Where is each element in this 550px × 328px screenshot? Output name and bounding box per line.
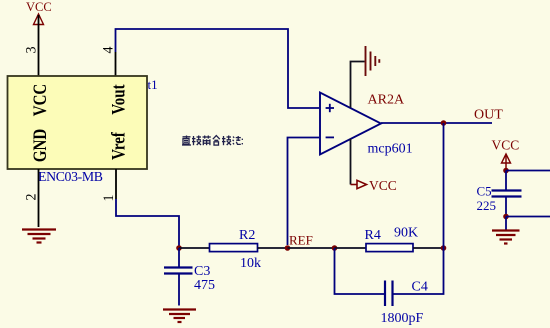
svg-text:VCC: VCC <box>29 84 50 116</box>
svg-text:4: 4 <box>100 47 116 54</box>
wire node D to right edge <box>506 170 550 172</box>
svg-text:10k: 10k <box>240 256 261 271</box>
svg-text:OUT: OUT <box>474 108 503 123</box>
resistor R4 <box>366 244 413 252</box>
wire node A to R2 <box>179 247 210 249</box>
合 <box>213 136 220 140</box>
wire node A down to C3 <box>178 248 180 267</box>
junction node A (C3/R2) <box>176 245 182 251</box>
svg-text:GND: GND <box>29 129 50 162</box>
op-amp - symbol <box>326 136 334 138</box>
svg-text:90K: 90K <box>394 226 418 241</box>
svg-text:C4: C4 <box>412 280 428 295</box>
power flag VCC (below op-amp) <box>351 178 397 193</box>
wire R4 to node C <box>413 247 444 249</box>
ground (under pin 2) <box>22 230 56 243</box>
wire node E to right edge <box>506 216 550 218</box>
svg-text:R4: R4 <box>365 228 381 243</box>
wire C5 to node E <box>505 197 507 217</box>
wire C4 to node C <box>394 248 444 294</box>
wire Vref to node A <box>116 199 179 246</box>
wire node B to R4 <box>335 247 367 249</box>
svg-text:Vref: Vref <box>108 132 129 160</box>
junction node C (R4/C4/out right) <box>441 245 447 251</box>
svg-text:VCC: VCC <box>369 178 397 193</box>
op-amp + symbol <box>326 104 334 112</box>
svg-text:ENC03-MB: ENC03-MB <box>38 169 103 184</box>
wire REF to node B <box>288 247 335 249</box>
pin 2 (GND) of U1 <box>38 169 40 227</box>
pin 1 (Vref) stub of U1 <box>115 169 117 199</box>
svg-text:REF: REF <box>289 233 313 248</box>
pin 3 (VCC) of U1 <box>38 15 40 76</box>
annotation text 直接藕合接法: (drawn strokes) <box>182 136 242 146</box>
ground (under C5) <box>492 231 520 244</box>
svg-text:Vout: Vout <box>108 84 129 115</box>
直 <box>183 136 191 138</box>
capacitor C5 <box>492 191 522 197</box>
svg-text:1800pF: 1800pF <box>381 311 424 326</box>
node REF junction <box>285 245 291 251</box>
svg-text:3: 3 <box>23 47 39 54</box>
svg-text:475: 475 <box>194 278 215 293</box>
junction node E <box>503 214 509 220</box>
wire Vout to op-amp +input <box>116 29 320 108</box>
wire node D down to C5 <box>505 171 507 191</box>
svg-text:2: 2 <box>23 194 39 201</box>
svg-text:C3: C3 <box>194 264 210 279</box>
svg-text:R2: R2 <box>239 228 255 243</box>
wire node OUT down to node C <box>443 123 445 248</box>
junction node D (VCC/C5) <box>503 168 509 174</box>
capacitor C3 <box>164 268 193 274</box>
resistor R2 <box>210 244 258 252</box>
svg-text:VCC: VCC <box>26 0 52 14</box>
wire C3 down to ground <box>178 274 180 306</box>
power flag VCC (right) <box>492 138 520 171</box>
svg-text:C5: C5 <box>477 184 492 199</box>
junction node OUT <box>441 120 447 126</box>
power flag VCC (top left) <box>26 0 52 25</box>
op-amp V- pin wire (down) <box>350 139 352 185</box>
wire R2 to node REF <box>258 247 288 249</box>
wire node E down to ground <box>505 217 507 230</box>
藕 <box>203 136 211 138</box>
junction node B (R4/C4 left) <box>332 245 338 251</box>
svg-text:mcp601: mcp601 <box>368 142 413 157</box>
pin 4 (Vout) stub of U1 <box>115 52 117 76</box>
colon <box>241 139 243 140</box>
wire node B down to C4 <box>335 248 385 294</box>
接 (1) <box>193 136 195 145</box>
wire op-amp output to OUT <box>381 122 492 124</box>
svg-text:225: 225 <box>477 198 497 213</box>
接 (2) <box>223 136 225 145</box>
svg-text:VCC: VCC <box>492 138 520 153</box>
svg-text:AR2A: AR2A <box>368 93 405 108</box>
ground (sideways, above op-amp) <box>366 46 380 76</box>
wire REF to op-amp -input (feedback) <box>288 138 320 246</box>
op-amp U2 AR2A triangle <box>320 93 381 155</box>
capacitor C4 <box>385 281 393 307</box>
法 <box>233 137 234 138</box>
IC U1 ENC03-MB body <box>8 76 148 169</box>
ground (under C3) <box>163 310 196 323</box>
svg-text:1: 1 <box>101 195 117 202</box>
op-amp V+ pin wire (up) <box>351 62 365 108</box>
svg-text:t1: t1 <box>148 77 158 92</box>
